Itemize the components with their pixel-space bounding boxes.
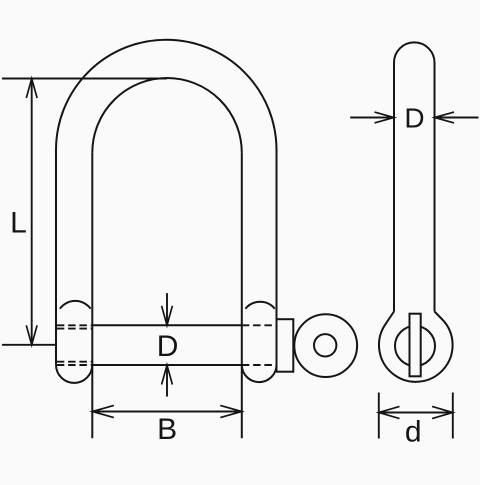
side lug inner circle — [395, 326, 435, 366]
dimension L bottom arrowhead — [26, 325, 37, 345]
right leg inner line / B extension — [241, 153, 243, 439]
dimension D side left arrow — [350, 117, 394, 119]
left lug shoulder arc — [60, 301, 91, 309]
dimension d left extension line — [378, 393, 380, 439]
left lug bottom cap — [56, 365, 92, 383]
dimension d right arrowhead — [432, 406, 453, 418]
svg-text:L: L — [10, 206, 27, 239]
dimension D side right arrow — [435, 117, 479, 119]
dimension L line — [31, 79, 33, 345]
svg-text:B: B — [157, 413, 177, 446]
dimension d right extension line — [452, 393, 454, 439]
dimension d line — [379, 412, 453, 414]
right lug hidden hole lines — [242, 325, 277, 365]
pin bottom line — [92, 364, 242, 366]
left lug hidden thread lines — [57, 325, 93, 365]
pin top line — [92, 324, 242, 326]
pin eye head — [294, 314, 357, 377]
left leg inner line / B extension — [91, 153, 93, 439]
dimension L top arrowhead — [26, 79, 37, 99]
left leg outer line — [55, 150, 57, 365]
shackle body outer arch — [56, 40, 277, 150]
svg-text:D: D — [157, 330, 179, 363]
dimension B right arrowhead — [220, 405, 242, 417]
right leg outer line — [276, 150, 278, 372]
pin collar — [277, 319, 294, 372]
dimension L top extension line — [2, 78, 167, 80]
right lug bottom cap — [242, 365, 277, 382]
dimension D front top arrow — [166, 293, 168, 325]
side view bar with rounded top and flare into lug — [394, 42, 435, 311]
dimension d left arrowhead — [379, 406, 400, 418]
pin head slot — [410, 314, 421, 377]
pin eye hole — [314, 334, 336, 356]
dimension L bottom extension line — [2, 344, 56, 346]
right lug shoulder arc — [245, 302, 274, 309]
svg-text:D: D — [404, 103, 424, 134]
svg-text:d: d — [405, 416, 422, 449]
dimension B left arrowhead — [92, 405, 114, 417]
side lug outer circle with flare tangents — [379, 312, 453, 382]
dimension B line — [92, 411, 242, 413]
shackle body inner arch — [92, 78, 242, 153]
dimension D front bottom arrow — [166, 365, 168, 397]
